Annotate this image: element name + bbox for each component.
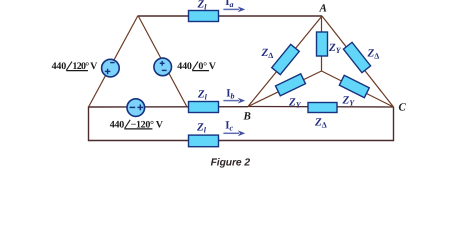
wire wye N to C [322, 71, 394, 107]
resistor Zl middle [189, 102, 219, 113]
resistor ZY vertical from A [317, 32, 328, 56]
svg-text:Ia: Ia [225, 0, 233, 9]
svg-text:120° V: 120° V [72, 61, 98, 72]
svg-text:440: 440 [177, 61, 192, 72]
wire top: source apex to node A [138, 15, 322, 17]
wire middle: left rail to node B [89, 106, 249, 108]
current arrow Ib [223, 98, 245, 104]
wire load side A-B [248, 16, 322, 107]
source label 440 angle 0 V [177, 61, 216, 72]
resistor ZDelta on side A-C [343, 42, 370, 72]
resistor ZDelta on side A-B [272, 44, 300, 74]
svg-text:A: A [319, 3, 327, 15]
svg-text:440: 440 [52, 61, 67, 72]
source V3 440&#8736;-120 [127, 99, 145, 117]
wire right rail up to node C [393, 107, 395, 141]
svg-text:0° V: 0° V [198, 61, 216, 72]
wire source-triangle right side [138, 16, 187, 108]
wire wye A to N [321, 16, 323, 71]
wire load side A-C [322, 16, 394, 107]
wire source-triangle left side [89, 16, 139, 108]
resistor ZY on N-B [276, 74, 306, 96]
svg-text:B: B [243, 111, 251, 123]
resistor ZDelta on side B-C [308, 103, 337, 113]
svg-text:Figure 2: Figure 2 [211, 158, 251, 169]
source label 440 angle -120 V [110, 119, 164, 130]
source V1 440&#8736;120 [102, 59, 120, 77]
svg-text:440: 440 [110, 119, 125, 130]
source V2 440&#8736;0 [154, 58, 172, 76]
resistor ZY on N-C [339, 75, 369, 97]
current arrow Ia [223, 7, 245, 13]
wire bottom [89, 140, 394, 142]
svg-text:Zl: Zl [197, 0, 208, 12]
wire left rail [88, 106, 90, 141]
wire wye N to B [248, 71, 322, 107]
svg-text:−120° V: −120° V [131, 119, 164, 130]
wire load side B-C [248, 106, 394, 109]
source label 440 angle 120 V [52, 61, 99, 72]
resistor Zl bottom [189, 135, 219, 147]
resistor Zl top [189, 11, 219, 22]
svg-text:C: C [399, 102, 407, 114]
current arrow Ic [223, 130, 245, 136]
